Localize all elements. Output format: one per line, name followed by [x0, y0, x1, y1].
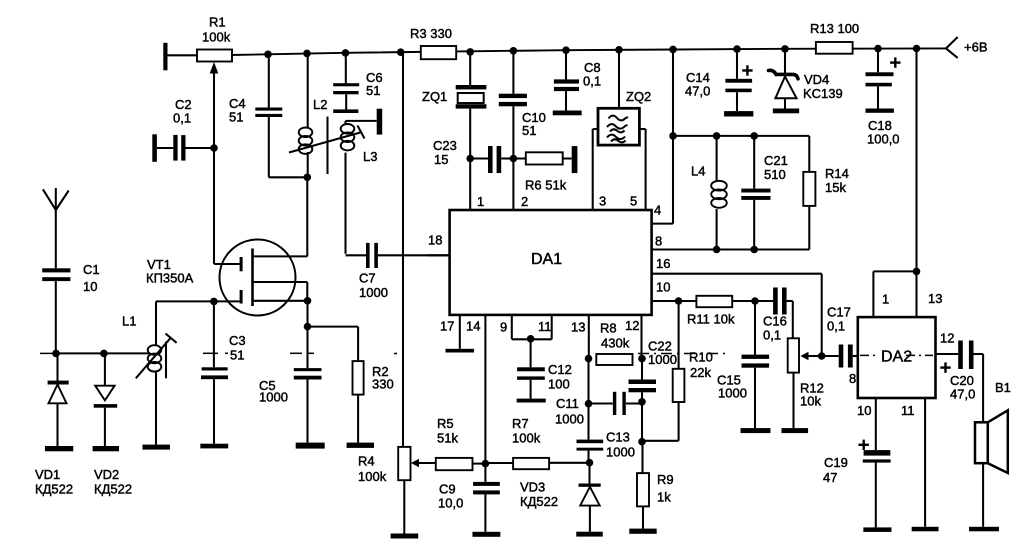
label R11 [687, 311, 735, 326]
svg-text:15: 15 [434, 152, 448, 167]
label R2 value [372, 376, 394, 391]
wire L4 top rail [673, 136, 809, 172]
label C22 value [648, 352, 677, 367]
label R14 value [825, 180, 846, 195]
node R8 left [585, 355, 593, 363]
capacitor C18 [866, 49, 894, 109]
label C18 plus [890, 57, 900, 67]
label DA2 pin 8 [849, 371, 856, 386]
ground R4 [391, 534, 419, 539]
label L2 [313, 97, 327, 112]
node R5 C9 pin14 [482, 460, 490, 468]
node pin10 R10 [675, 297, 683, 305]
inductor L4 [711, 136, 727, 250]
label pin 10 [656, 279, 670, 294]
label C5 [259, 378, 276, 393]
capacitor C10 [499, 51, 527, 159]
label DA2 pin 11 [901, 403, 915, 418]
label C5 value [259, 389, 288, 404]
label pin 17 [440, 318, 454, 333]
label ZQ2 [626, 89, 651, 104]
capacitor C9 [473, 464, 500, 532]
svg-text:L1: L1 [122, 313, 136, 328]
svg-text:C11: C11 [556, 396, 579, 411]
svg-text:51: 51 [366, 83, 380, 98]
ground DA2 pin11 [912, 527, 939, 532]
svg-text:ZQ1: ZQ1 [422, 89, 447, 104]
op-amp DA1 [450, 210, 652, 315]
label DA2 pin 1 [882, 291, 889, 306]
label C15 value [718, 385, 747, 400]
capacitor C19 [863, 450, 891, 527]
svg-text:1000: 1000 [259, 389, 288, 404]
label R6 [525, 177, 567, 192]
ground VD2 [93, 446, 119, 451]
svg-text:VD3: VD3 [520, 479, 545, 494]
label VD4 [804, 72, 829, 87]
label C7 [359, 270, 376, 285]
label R12 [800, 380, 824, 395]
label C19 value [823, 470, 837, 485]
svg-text:1000: 1000 [555, 411, 584, 426]
wire pin12 [640, 315, 642, 359]
svg-text:510: 510 [764, 167, 786, 182]
transistor VT1 [156, 177, 307, 315]
ground R9 [629, 529, 656, 534]
ground pin17 [446, 349, 475, 353]
svg-text:47,0: 47,0 [685, 83, 710, 98]
label C23 value [434, 152, 448, 167]
resistor R2 [353, 361, 364, 443]
R1 wiper arrow [210, 62, 219, 148]
terminal +6V [946, 37, 958, 58]
capacitor C8 [554, 50, 579, 110]
diode VD2 [94, 353, 118, 446]
wire pin18 [428, 254, 450, 256]
node bus L4 [669, 46, 677, 54]
label C20 value [950, 386, 975, 401]
capacitor C5 [294, 327, 322, 443]
resistor R5 [436, 458, 486, 470]
label pin 8 [655, 233, 662, 248]
label C9 [439, 481, 456, 496]
node bus C10 [510, 47, 518, 55]
wire pin8 rail [652, 248, 810, 250]
svg-text:2: 2 [521, 194, 528, 209]
node L4 bottom [713, 246, 721, 254]
node bus DA2 supply [913, 45, 921, 53]
svg-text:R13 100: R13 100 [810, 21, 859, 36]
capacitor C11 [589, 392, 643, 415]
capacitor C1 [42, 268, 70, 353]
label +6B [964, 39, 988, 54]
svg-text:5: 5 [630, 193, 637, 208]
svg-text:14: 14 [466, 318, 480, 333]
node bus R3 left [397, 48, 405, 56]
svg-text:10,0: 10,0 [438, 495, 463, 510]
label R4 value [358, 469, 387, 484]
wire source down [306, 301, 308, 327]
svg-text:51: 51 [522, 123, 536, 138]
node C11 right [638, 398, 646, 406]
resistor R4 [398, 447, 410, 534]
label VT1 type [146, 270, 194, 285]
label R5 [437, 416, 454, 431]
svg-text:DA2: DA2 [881, 349, 912, 366]
label C13 [606, 429, 630, 444]
label VD1 type [35, 481, 73, 496]
label R13 [810, 21, 859, 36]
ground VD1 [45, 446, 73, 451]
node bus VD4 [781, 45, 789, 53]
svg-text:12: 12 [940, 330, 954, 345]
svg-text:R5: R5 [437, 416, 454, 431]
label R4 [358, 453, 375, 468]
svg-text:R6 51k: R6 51k [525, 177, 567, 192]
ground C19 [863, 527, 891, 532]
capacitor C20 [936, 341, 984, 527]
label R9 value [657, 489, 671, 504]
svg-text:3: 3 [599, 193, 606, 208]
svg-text:11: 11 [538, 319, 552, 334]
node R12 C17 [818, 352, 826, 360]
svg-text:R3 330: R3 330 [410, 26, 452, 41]
label C4 value [229, 109, 243, 124]
svg-text:330: 330 [372, 376, 394, 391]
label R10 [689, 349, 713, 364]
label C12 [548, 362, 572, 377]
node C23 C10 R6 [510, 155, 518, 163]
svg-text:KC139: KC139 [803, 86, 843, 101]
label L4 [691, 163, 705, 178]
svg-text:10: 10 [83, 279, 97, 294]
label R2 [372, 364, 389, 379]
node R1 wiper / C2 junction [210, 144, 218, 152]
wire pin9 pin11 [512, 315, 552, 367]
ground VD3 [576, 532, 603, 537]
svg-text:12: 12 [625, 318, 639, 333]
wire R8-left to C11 [587, 359, 589, 404]
ground C15 [741, 428, 771, 433]
ground C8 [553, 111, 582, 116]
svg-text:10: 10 [857, 403, 871, 418]
resistor R1 [197, 50, 232, 62]
ground C5 [296, 443, 325, 449]
label C14 plus [742, 65, 752, 75]
capacitor C17 [822, 345, 858, 368]
label C12 value [548, 376, 570, 391]
wire +6V bus [167, 48, 946, 55]
node source C5 R2 [304, 323, 312, 331]
node R10 join [638, 438, 646, 446]
label R8 value [601, 335, 630, 350]
wire bus to pin4 [652, 49, 673, 223]
node DA2 bracket [913, 268, 921, 276]
svg-text:DA1: DA1 [531, 251, 562, 268]
svg-text:L4: L4 [691, 163, 705, 178]
node bus C14 [733, 45, 741, 53]
label C11 [556, 396, 579, 411]
svg-text:13: 13 [928, 291, 942, 306]
svg-text:0,1: 0,1 [827, 318, 845, 333]
svg-text:L2: L2 [313, 97, 327, 112]
capacitor C12 [517, 367, 545, 398]
capacitor C13 [577, 404, 604, 463]
svg-text:22k: 22k [690, 365, 711, 380]
label C4 [229, 96, 246, 111]
label C14 value [685, 83, 710, 98]
svg-text:R4: R4 [358, 453, 375, 468]
crystal ZQ1 [456, 52, 487, 159]
label C13 value [606, 444, 635, 459]
label R14 [825, 166, 849, 181]
svg-text:C12: C12 [548, 362, 572, 377]
diode VD3 [579, 463, 601, 532]
wire pin14 [484, 315, 486, 464]
ground C9 [472, 532, 500, 537]
node R8 right [638, 355, 646, 363]
label C22 [648, 338, 672, 353]
svg-text:R10: R10 [689, 349, 713, 364]
capacitor C3 [201, 367, 228, 443]
svg-text:100,0: 100,0 [867, 131, 900, 146]
capacitor C16 [755, 288, 793, 339]
label DA2 [881, 349, 912, 366]
svg-text:VD4: VD4 [804, 72, 829, 87]
svg-text:1: 1 [882, 291, 889, 306]
wire R1 wiper to gate [213, 148, 215, 264]
label C10 [522, 110, 546, 125]
svg-text:ZQ2: ZQ2 [626, 89, 651, 104]
label C18 [868, 118, 892, 133]
label B1 [995, 380, 1011, 395]
label C3 value [230, 347, 244, 362]
node source [304, 297, 312, 305]
svg-text:51k: 51k [437, 430, 458, 445]
label DA2 pin 12 [940, 330, 954, 345]
svg-text:C7: C7 [359, 270, 376, 285]
svg-text:8: 8 [849, 371, 856, 386]
label L1 [122, 313, 136, 328]
svg-text:R11 10k: R11 10k [687, 311, 735, 326]
label C20 plus [940, 362, 950, 372]
wire pin16 [652, 274, 822, 356]
svg-text:1000: 1000 [606, 444, 635, 459]
svg-text:C21: C21 [764, 153, 788, 168]
svg-text:КД522: КД522 [35, 481, 73, 496]
label pin 4 [654, 202, 661, 217]
label R7 [512, 416, 529, 431]
label C16 value [763, 327, 781, 342]
svg-text:11: 11 [901, 403, 915, 418]
label L3 [363, 149, 377, 164]
label DA2 pin 10 [857, 403, 871, 418]
wire DA2 pin11 [924, 398, 926, 527]
svg-text:10k: 10k [800, 393, 821, 408]
label C21 [764, 153, 788, 168]
label R7 value [512, 430, 541, 445]
capacitor C14 [725, 49, 752, 111]
svg-text:1k: 1k [657, 489, 671, 504]
label VD3 type [520, 494, 558, 509]
label C19 [824, 455, 848, 470]
label C17 value [827, 318, 845, 333]
wire DA2 pin10 [875, 398, 877, 450]
node C11 left [585, 400, 593, 408]
label R3 [410, 26, 452, 41]
label C9 value [438, 495, 463, 510]
resistor R13 [816, 42, 853, 54]
svg-text:0,1: 0,1 [763, 327, 781, 342]
label C18 value [867, 131, 900, 146]
node L4 top [713, 132, 721, 140]
svg-text:1000: 1000 [718, 385, 747, 400]
inductor L1 [136, 301, 177, 444]
svg-text:B1: B1 [995, 380, 1011, 395]
label pin 14 [466, 318, 480, 333]
svg-text:C9: C9 [439, 481, 456, 496]
svg-text:C3: C3 [229, 333, 246, 348]
L2 L3 tuning arrow [289, 126, 365, 153]
svg-text:VD2: VD2 [94, 467, 119, 482]
svg-text:47,0: 47,0 [950, 386, 975, 401]
svg-text:51: 51 [230, 347, 244, 362]
svg-text:L3: L3 [363, 149, 377, 164]
label C1 [83, 262, 100, 277]
label DA1 [531, 251, 562, 268]
label R1 [209, 14, 226, 29]
antenna WA1 [43, 188, 69, 268]
node bus C4 [264, 51, 272, 59]
svg-text:КД522: КД522 [94, 481, 132, 496]
svg-text:100: 100 [548, 376, 570, 391]
node gate1 junction [210, 298, 218, 306]
label C11 value [555, 411, 584, 426]
capacitor C4 [255, 54, 282, 178]
svg-text:8: 8 [655, 233, 662, 248]
label C17 [827, 304, 851, 319]
ground B1 [969, 527, 999, 532]
resistor R3 [421, 46, 456, 59]
svg-text:R7: R7 [512, 416, 529, 431]
svg-text:15k: 15k [825, 180, 846, 195]
label C3 [229, 333, 246, 348]
wire to R2 [308, 327, 359, 362]
capacitor C23 [470, 146, 513, 173]
label pin 1 [477, 194, 484, 209]
resistor R7 [485, 458, 589, 469]
svg-text:18: 18 [428, 232, 442, 247]
label pin 12 [625, 318, 639, 333]
node bus C8 [562, 46, 570, 54]
ground C3 [200, 444, 228, 449]
svg-text:0,1: 0,1 [583, 73, 601, 88]
label VD2 type [94, 481, 132, 496]
wire supply to DA2 [915, 49, 917, 272]
inductor L2 [299, 53, 313, 177]
label R10 value [690, 365, 711, 380]
wire ZQ2 pin3 [593, 129, 598, 210]
wire R14 bottom [808, 206, 810, 250]
ground R2 [347, 443, 374, 448]
resistor R14 [803, 172, 815, 206]
wire pin17 [459, 315, 461, 349]
node C21 bottom [750, 246, 758, 254]
wire pin1 [469, 159, 471, 211]
label ZQ1 [422, 89, 447, 104]
wire pin13 [588, 315, 590, 359]
node bus L2 [303, 50, 311, 58]
ground L1 [142, 445, 170, 450]
label pin 11 [538, 319, 552, 334]
diode VD4 [769, 49, 799, 109]
label C2 value [173, 110, 191, 125]
node pin9-11 join [527, 335, 535, 343]
svg-text:100k: 100k [202, 29, 231, 44]
svg-text:R14: R14 [825, 166, 849, 181]
ground C12 [517, 399, 546, 403]
label C14 [686, 70, 710, 85]
label VD4 type [803, 86, 843, 101]
inductor L3 [341, 121, 377, 254]
label C8 value [583, 73, 601, 88]
R4 wiper arrow [411, 459, 436, 467]
capacitor C21 [741, 136, 770, 250]
node VD2 [100, 350, 108, 358]
svg-text:R1: R1 [209, 14, 226, 29]
svg-text:4: 4 [654, 202, 661, 217]
label pin 2 [521, 194, 528, 209]
DA2 top bracket [873, 271, 916, 317]
label VD1 [35, 467, 60, 482]
svg-text:C13: C13 [606, 429, 630, 444]
resistor R8 [596, 354, 632, 365]
terminal L3 [377, 109, 383, 135]
label pin 16 [656, 256, 670, 271]
label R5 value [437, 430, 458, 445]
svg-text:C1: C1 [83, 262, 100, 277]
speaker B1 [975, 410, 1008, 473]
svg-text:C17: C17 [827, 304, 851, 319]
R12 wiper arrow [801, 352, 822, 360]
label VD2 [94, 467, 119, 482]
node C1/VD1 [52, 350, 60, 358]
svg-text:47: 47 [823, 470, 837, 485]
label C6 [366, 70, 383, 85]
node R11 C16 C15 [751, 297, 759, 305]
svg-text:430k: 430k [601, 335, 630, 350]
node bus ZQ2 [615, 46, 623, 54]
capacitor C15 [742, 301, 770, 428]
label C6 value [366, 83, 380, 98]
svg-text:1000: 1000 [359, 285, 388, 300]
chassis dash-dot line [40, 353, 933, 355]
resistor R12 [788, 338, 799, 428]
svg-text:17: 17 [440, 318, 454, 333]
label pin 18 [428, 232, 442, 247]
label C2 [175, 97, 192, 112]
label R12 value [800, 393, 821, 408]
label pin 5 [630, 193, 637, 208]
label R8 [600, 320, 617, 335]
capacitor C2 [152, 134, 213, 162]
node drain rail [304, 174, 312, 182]
diode VD1 [48, 353, 69, 446]
resistor R9 [637, 442, 649, 529]
capacitor C6 [333, 53, 359, 110]
ground C14 [724, 111, 753, 116]
node bus C6 [342, 49, 350, 57]
